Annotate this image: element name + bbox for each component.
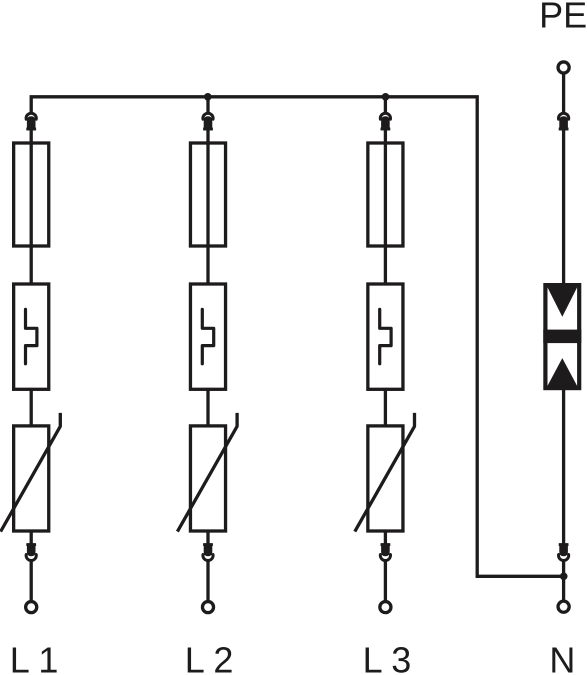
- plug-in contact (pin + socket), bottom of PE-N column: [559, 543, 569, 560]
- svg-text:L 1: L 1: [10, 640, 59, 675]
- plug-in contact (socket + pin), top of L1 column: [26, 113, 36, 130]
- svg-text:N: N: [549, 640, 575, 675]
- wire: L1 varistor to bottom pin: [30, 530, 33, 544]
- wire: L3 socket to terminal: [384, 560, 387, 601]
- plug-in contact (socket + pin), top of L3 column: [380, 113, 390, 130]
- plug-in contact (socket + pin), top of L2 column: [203, 113, 213, 130]
- plug-in contact (socket + pin), top of PE-N column: [559, 113, 569, 130]
- label L3: [363, 640, 412, 675]
- label L1: [10, 640, 59, 675]
- terminal circle L3: [380, 602, 391, 613]
- disconnector box, L1 column: [14, 284, 49, 389]
- wire: PE pin down to spark gap: [562, 129, 565, 286]
- wire: L3 pin through fuse down to disconnector box: [384, 129, 387, 286]
- fuse, L2 column: [190, 143, 225, 246]
- wire: L2 socket to terminal: [206, 560, 209, 601]
- wire: L1 pin through fuse down to disconnector box: [30, 129, 33, 286]
- fuse, L3 column: [368, 143, 403, 246]
- wire: top bus from L1 across to right drop and over to N junction: [31, 97, 563, 577]
- svg-text:L 2: L 2: [185, 640, 234, 675]
- disconnector box, L3 column: [368, 284, 403, 389]
- terminal circle L1: [26, 602, 37, 613]
- wire: PE terminal down to plug contact: [562, 74, 565, 113]
- plug-in contact (pin + socket), bottom of L1 column: [26, 543, 36, 560]
- wire: L3 disconnector to varistor: [384, 388, 387, 428]
- wire: L3 tap from bus: [384, 95, 387, 113]
- wire: L2 disconnector to varistor: [206, 388, 209, 428]
- label L2: [185, 640, 234, 675]
- varistor, L1 column: [1, 413, 61, 532]
- varistor, L3 column: [355, 413, 415, 532]
- disconnector box, L2 column: [190, 284, 225, 389]
- junction dot: bus at L3: [382, 93, 390, 101]
- terminal circle N: [558, 601, 569, 612]
- wire: L1 disconnector to varistor: [30, 388, 33, 428]
- svg-text:L 3: L 3: [363, 640, 412, 675]
- terminal circle PE: [558, 62, 569, 73]
- plug-in contact (pin + socket), bottom of L2 column: [203, 543, 213, 560]
- junction dot: N wire meets bus return: [560, 572, 568, 580]
- wire: L2 tap from bus: [206, 95, 209, 113]
- label PE: [539, 0, 587, 36]
- svg-text:PE: PE: [539, 0, 587, 36]
- plug-in contact (pin + socket), bottom of L3 column: [380, 543, 390, 560]
- terminal circle L2: [202, 602, 213, 613]
- wire: L2 pin through fuse down to disconnector box: [206, 129, 209, 286]
- wire: N socket through junction to terminal: [562, 560, 565, 601]
- varistor, L2 column: [177, 413, 237, 532]
- spark gap N-PE (triangles symbol): [543, 285, 581, 388]
- wire: L1 socket to terminal: [30, 560, 33, 601]
- wire: L3 varistor to bottom pin: [384, 530, 387, 544]
- wire: L2 varistor to bottom pin: [206, 530, 209, 544]
- label N: [549, 640, 575, 675]
- fuse, L1 column: [14, 143, 49, 246]
- junction dot: bus at L2: [204, 93, 212, 101]
- wire: spark gap down to bottom pin: [562, 389, 565, 544]
